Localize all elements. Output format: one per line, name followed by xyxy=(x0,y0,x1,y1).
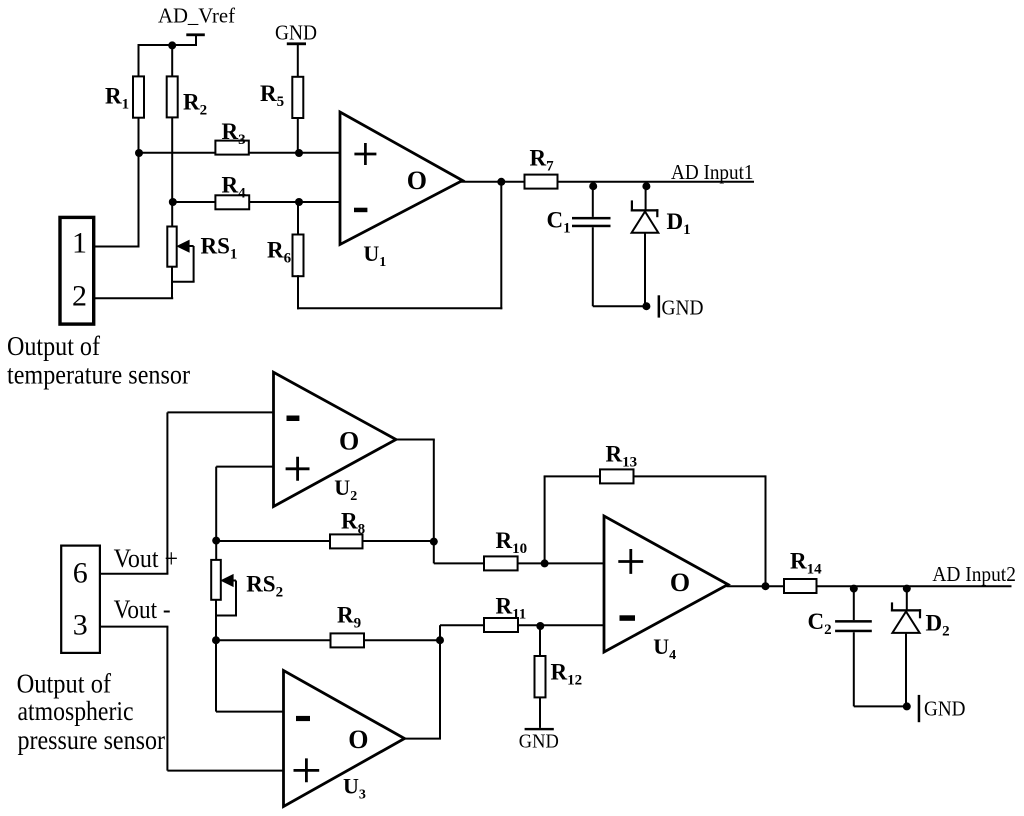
node R9 right junction xyxy=(436,636,444,644)
svg-text:3: 3 xyxy=(73,609,88,642)
op-amp U1 xyxy=(340,112,463,270)
power symbol AD_Vref xyxy=(158,4,236,46)
node R4/R6 junction xyxy=(295,198,303,206)
resistor R6 xyxy=(267,202,304,276)
svg-text:AD_Vref: AD_Vref xyxy=(158,4,236,28)
wire U2 noninverting input xyxy=(216,467,273,560)
resistor R9 xyxy=(331,603,365,648)
node U4 output junction xyxy=(762,582,770,590)
ground GND below R12 xyxy=(519,728,559,753)
node R8 right junction xyxy=(430,538,438,546)
wire pin 6 stub xyxy=(100,573,168,575)
wire U2 output to R8 xyxy=(395,440,435,564)
svg-text:1: 1 xyxy=(72,227,87,260)
ground GND right of D1 xyxy=(658,295,704,319)
wire Vref bus xyxy=(138,44,198,46)
node ground junction xyxy=(642,302,650,310)
connector pins 6-3 pressure sensor xyxy=(61,546,100,653)
wire U3 output riser xyxy=(404,625,442,738)
node R1/R3 junction xyxy=(135,149,143,157)
node R8 left junction xyxy=(212,537,220,545)
svg-text:6: 6 xyxy=(73,557,88,590)
zener diode D1 xyxy=(631,182,691,306)
node R10/R13 junction xyxy=(541,559,549,567)
wire RS2 to R9 line and U3 inverting input xyxy=(216,600,284,712)
svg-text:O: O xyxy=(348,725,368,754)
svg-text:GND: GND xyxy=(519,731,559,753)
node R11/R12 junction xyxy=(536,622,544,630)
node D1 top junction xyxy=(642,182,650,190)
resistor R5 xyxy=(260,77,303,153)
node ground junction 2 xyxy=(903,702,911,710)
svg-text:O: O xyxy=(339,427,359,456)
svg-text:Vout -: Vout - xyxy=(114,595,171,624)
wire U1 output xyxy=(461,181,525,183)
resistor R2 xyxy=(167,45,207,119)
node R2/R4 junction xyxy=(169,198,177,206)
wire R2 to R4 line xyxy=(171,117,173,202)
capacitor C1 xyxy=(547,182,611,306)
svg-text:Vout +: Vout + xyxy=(114,544,179,573)
svg-text:AD Input1: AD Input1 xyxy=(671,160,754,184)
node D2 top junction xyxy=(903,585,911,593)
wire Vout+ to U2 inverting input xyxy=(167,412,273,573)
svg-text:Output of: Output of xyxy=(17,668,112,698)
resistor R7 xyxy=(525,146,558,189)
wire U1 feedback xyxy=(297,182,502,310)
resistor R12 xyxy=(535,626,583,728)
svg-text:2: 2 xyxy=(72,280,87,313)
wire R1 to pin1 and R3 tee xyxy=(138,118,140,247)
resistor R11 xyxy=(484,594,526,633)
svg-text:GND: GND xyxy=(924,697,966,721)
capacitor C2 xyxy=(808,587,872,707)
svg-text:atmospheric: atmospheric xyxy=(18,696,134,726)
node R9 left junction xyxy=(212,636,220,644)
op-amp U3 xyxy=(284,671,405,807)
node R3/R5 junction xyxy=(295,149,303,157)
ground GND above R5 xyxy=(275,21,317,77)
op-amp U4 xyxy=(604,516,728,663)
op-amp U2 xyxy=(274,372,397,506)
wire R10 line to U4 noninverting input xyxy=(434,562,604,564)
wire C2 D2 ground bus xyxy=(854,705,910,707)
zener diode D2 xyxy=(891,587,950,707)
wire R9 line xyxy=(216,639,440,641)
svg-text:GND: GND xyxy=(275,21,317,45)
node Vref junction xyxy=(168,41,176,49)
wire R13 feedback loop xyxy=(544,475,766,586)
resistor R3 xyxy=(215,119,248,155)
resistor R14 xyxy=(784,549,822,594)
wire inverting input line (R4 line) xyxy=(172,201,340,203)
svg-text:temperature sensor: temperature sensor xyxy=(7,359,190,390)
resistor R1 xyxy=(105,44,144,118)
potentiometer RS1 xyxy=(167,202,237,298)
svg-text:AD Input2: AD Input2 xyxy=(932,562,1016,586)
svg-text:O: O xyxy=(670,568,690,597)
svg-text:GND: GND xyxy=(662,296,704,320)
resistor R8 xyxy=(330,509,365,549)
connector pins 1-2 temperature sensor xyxy=(60,217,94,324)
resistor R10 xyxy=(484,528,527,570)
wire U4 output xyxy=(727,585,785,587)
resistor R13 xyxy=(600,442,637,484)
node C1 top junction xyxy=(589,182,597,190)
ground GND right of D2 xyxy=(918,695,966,722)
wire to AD Input2 xyxy=(817,585,1012,587)
node C2 top junction xyxy=(850,585,858,593)
node U1 output junction xyxy=(497,178,505,186)
svg-text:Output of: Output of xyxy=(7,330,101,361)
wire pin 3 stub xyxy=(100,626,168,628)
wire C1 D1 ground bus xyxy=(593,305,650,307)
wire R11 line to U4 inverting input xyxy=(440,624,604,626)
text output of atmospheric pressure sensor xyxy=(17,668,165,754)
svg-text:pressure sensor: pressure sensor xyxy=(18,725,166,755)
wire pin 2 stub xyxy=(94,297,174,299)
wire to AD Input1 xyxy=(558,181,755,183)
wire noninverting input line (R3 line) xyxy=(139,152,341,154)
wire R8 line xyxy=(216,540,434,542)
svg-text:O: O xyxy=(407,166,427,195)
potentiometer RS2 xyxy=(211,560,283,616)
text output of temperature sensor xyxy=(7,330,190,390)
wire Vout- to U3 noninverting input xyxy=(167,627,283,771)
wire pin 1 stub xyxy=(94,246,140,248)
resistor R4 xyxy=(215,173,249,210)
